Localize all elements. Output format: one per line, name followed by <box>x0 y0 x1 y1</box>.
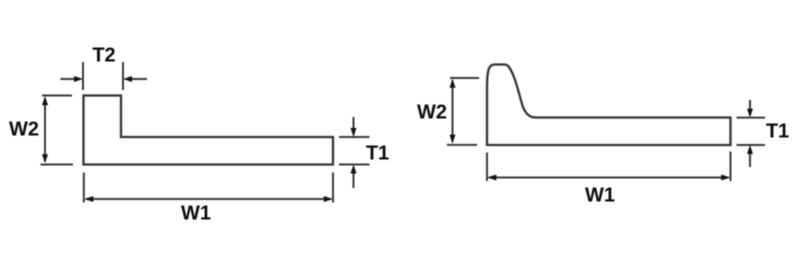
left W1 arrowheads <box>84 196 93 202</box>
left W1 extension lines <box>84 173 333 203</box>
right W1 extension lines <box>487 152 731 182</box>
right W1 arrowheads <box>487 175 496 181</box>
right bump profile outline <box>487 65 731 146</box>
svg-text:W2: W2 <box>9 119 39 141</box>
left T2 arrowheads <box>74 76 83 82</box>
right T1 arrow tails <box>749 100 751 167</box>
svg-text:W2: W2 <box>417 102 447 124</box>
left W2 arrowheads <box>42 96 48 105</box>
svg-text:W1: W1 <box>181 203 211 225</box>
svg-text:T2: T2 <box>92 45 115 67</box>
left T1 extension lines <box>339 137 370 165</box>
svg-text:W1: W1 <box>585 185 615 207</box>
right W2 arrowheads <box>450 79 456 88</box>
left W2 extension lines <box>41 96 74 165</box>
left T2 arrow tails <box>61 78 148 80</box>
left W1 dimension line <box>86 198 331 200</box>
right W2 extension lines <box>447 78 479 145</box>
left T1 arrow tails <box>353 117 355 188</box>
svg-text:T1: T1 <box>366 143 389 165</box>
right W2 dimension line <box>452 81 454 143</box>
svg-text:T1: T1 <box>766 121 789 143</box>
right T1 extension lines <box>737 118 766 145</box>
left T1 arrowheads <box>351 128 357 137</box>
right T1 arrowheads <box>747 109 753 118</box>
right W1 dimension line <box>489 177 729 179</box>
left W2 dimension line <box>44 98 46 162</box>
left T2 extension lines <box>83 62 123 90</box>
left L-profile outline <box>84 96 334 165</box>
